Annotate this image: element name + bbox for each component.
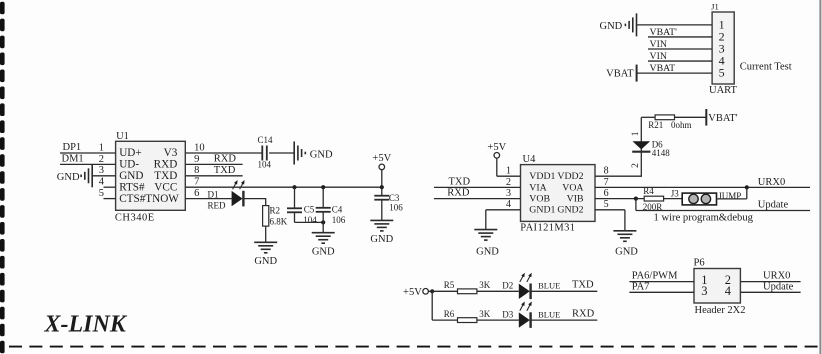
junction node at C3: [380, 185, 384, 189]
header P6 box: [694, 269, 740, 304]
junction node at C4 bottom: [321, 220, 325, 224]
svg-text:8: 8: [194, 165, 199, 176]
junction node LEDs: [430, 289, 434, 293]
capacitor C4: [316, 207, 331, 209]
wire U4 pin8 up: [595, 175, 641, 177]
svg-text:3: 3: [701, 284, 707, 298]
wire GND to U1 pin3: [92, 175, 115, 177]
svg-text:5: 5: [99, 188, 104, 199]
svg-text:GND: GND: [119, 170, 143, 182]
svg-text:1: 1: [631, 131, 641, 136]
svg-text:GND: GND: [57, 172, 80, 183]
sheet right border line: [819, 0, 821, 354]
wire R4 to J3: [664, 198, 683, 200]
wire U1 pin7 VCC rail: [185, 186, 381, 188]
junction node jumper to URX0: [745, 185, 749, 189]
svg-text:VBAT: VBAT: [606, 68, 634, 79]
svg-text:X-LINK: X-LINK: [44, 312, 128, 338]
svg-text:2: 2: [631, 163, 641, 168]
sheet bottom dashed border: [9, 346, 822, 348]
svg-text:5: 5: [719, 66, 725, 80]
svg-text:GND1: GND1: [529, 205, 555, 216]
svg-text:BLUE: BLUE: [538, 281, 560, 291]
svg-text:D1: D1: [208, 190, 219, 200]
svg-text:+5V: +5V: [487, 142, 506, 153]
wire TXD to U4 pin2: [434, 186, 521, 188]
LED D1 arrows: [233, 182, 237, 189]
svg-text:7: 7: [604, 177, 609, 188]
wire J3 to URX0: [717, 198, 747, 200]
ground (sideways) at U1 pin3: [91, 164, 93, 187]
svg-text:7: 7: [194, 177, 199, 188]
IC U1 box: [116, 141, 186, 210]
svg-text:TXD: TXD: [214, 165, 236, 176]
svg-text:CH340E: CH340E: [115, 212, 155, 223]
sheet left dashed border: [0, 2, 5, 354]
svg-text:4: 4: [725, 284, 732, 298]
svg-text:U1: U1: [116, 131, 129, 142]
svg-text:GND2: GND2: [557, 205, 583, 216]
ground below R2: [254, 241, 277, 243]
diode D6: [633, 141, 651, 149]
svg-text:VBAT': VBAT': [650, 27, 678, 38]
wire C5 bottom: [294, 212, 296, 222]
svg-text:CTS#TNOW: CTS#TNOW: [119, 193, 179, 205]
wire C5 top: [294, 187, 296, 208]
LED D2 arrows: [520, 275, 524, 282]
svg-text:GND: GND: [310, 149, 333, 160]
port terminal bar VBAT: [636, 65, 638, 82]
wire J1 pin2 (VBAT'): [648, 36, 712, 38]
svg-text:GND: GND: [600, 21, 623, 32]
svg-text:4148: 4148: [652, 148, 671, 158]
svg-text:1 wire program&debug: 1 wire program&debug: [654, 213, 754, 224]
wire DM1 to U1 pin2: [60, 163, 116, 165]
svg-text:GND: GND: [476, 247, 499, 258]
resistor R6: [458, 318, 477, 323]
svg-text:VOA: VOA: [562, 182, 583, 193]
svg-text:104: 104: [303, 215, 317, 225]
svg-text:RXD: RXD: [447, 188, 470, 199]
wire J1 pin5 (VBAT): [637, 72, 713, 74]
svg-text:3: 3: [99, 165, 104, 176]
wire U4 pin7 URX0 line: [595, 186, 810, 188]
port terminal bar VBAT': [705, 109, 707, 126]
svg-text:V3: V3: [164, 147, 178, 159]
wire R6 to D3: [477, 319, 519, 321]
svg-text:R6: R6: [444, 309, 455, 319]
svg-text:+5V: +5V: [372, 153, 391, 164]
wire J1 pin3 (VIN): [648, 48, 712, 50]
wire RXD to U4 pin3: [434, 198, 521, 200]
wire stub U1 pin5: [104, 198, 116, 200]
svg-text:D2: D2: [502, 281, 513, 291]
wire +5V down to R6 row: [431, 291, 433, 320]
svg-text:DM1: DM1: [62, 154, 84, 165]
capacitor C5: [287, 207, 302, 209]
svg-text:8: 8: [604, 166, 609, 177]
IC U4 box: [521, 165, 596, 222]
svg-text:J1: J1: [711, 1, 719, 11]
wire U4 pin6: [595, 198, 645, 200]
wire C4 top: [322, 187, 324, 208]
svg-text:PAI121M31: PAI121M31: [520, 223, 575, 234]
svg-text:1: 1: [99, 142, 104, 153]
svg-text:2: 2: [506, 177, 511, 188]
svg-text:VDD2: VDD2: [557, 171, 583, 182]
svg-text:VBAT: VBAT: [650, 63, 676, 74]
capacitor C14: [261, 146, 263, 161]
+5V terminal circle (LEDs): [423, 289, 429, 295]
wire U1 pin9 RXD: [185, 163, 242, 165]
wire U1 pin8 TXD: [185, 175, 242, 177]
svg-text:1: 1: [506, 166, 511, 177]
wire C4 bottom to ground: [322, 212, 324, 233]
LED D2: [519, 284, 530, 299]
svg-text:VIA: VIA: [529, 182, 546, 193]
svg-text:6.8K: 6.8K: [270, 216, 288, 226]
wire R21 to VBAT': [675, 116, 707, 118]
wire R5 to D2: [477, 290, 519, 292]
ground below C3: [370, 219, 393, 221]
svg-text:URX0: URX0: [758, 177, 785, 188]
svg-text:UART: UART: [709, 85, 738, 96]
wire pin6 junction down to Update: [635, 199, 637, 211]
wire PA6/PWM to P6 pin1: [629, 281, 694, 283]
ground below C4/C5: [312, 232, 335, 234]
svg-text:URX0: URX0: [763, 270, 790, 281]
svg-text:106: 106: [332, 215, 346, 225]
svg-text:3K: 3K: [479, 309, 491, 319]
wire D3 to RXD: [531, 319, 598, 321]
svg-text:6: 6: [194, 188, 199, 199]
svg-text:R21: R21: [648, 120, 663, 130]
svg-text:Update: Update: [763, 282, 794, 293]
wire +5V to R5: [428, 290, 457, 292]
resistor R5: [458, 289, 477, 294]
svg-text:VIN: VIN: [650, 39, 667, 50]
capacitor C3: [374, 195, 389, 197]
svg-text:VOB: VOB: [529, 194, 550, 205]
svg-text:RXD: RXD: [214, 153, 237, 164]
svg-text:2: 2: [99, 154, 104, 165]
jumper J3: [682, 193, 716, 205]
wire P6 pin4 to Update: [740, 291, 800, 293]
ground below U4 pin4: [474, 229, 497, 231]
resistor R4: [644, 196, 663, 201]
svg-text:C4: C4: [332, 205, 343, 215]
wire U4 pin5 to ground: [595, 209, 625, 211]
svg-text:R2: R2: [270, 206, 281, 216]
svg-text:VCC: VCC: [154, 181, 177, 193]
wire R2 to ground: [265, 226, 267, 242]
svg-text:RXD: RXD: [154, 159, 178, 171]
+5V terminal at U4 pin1: [494, 153, 500, 159]
wire J1 pin4 (VIN): [648, 60, 712, 62]
svg-text:3: 3: [506, 188, 511, 199]
svg-text:UD+: UD+: [119, 147, 141, 159]
svg-text:GND: GND: [254, 256, 277, 267]
svg-text:0ohm: 0ohm: [671, 120, 692, 130]
svg-text:4: 4: [99, 177, 105, 188]
svg-text:C5: C5: [304, 205, 315, 215]
wire U4 pin4 to ground: [486, 209, 521, 211]
wire C3 bottom to ground: [381, 200, 383, 221]
LED D3 arrows: [520, 303, 524, 310]
wire J1 pin1 to GND: [637, 24, 713, 26]
wire stub U1 pin4: [104, 186, 116, 188]
ground (sideways) at J1 pin1: [636, 13, 638, 36]
svg-text:106: 106: [389, 203, 403, 213]
svg-text:R4: R4: [643, 186, 654, 196]
wire D2 to TXD: [531, 290, 598, 292]
+5V terminal circle: [379, 164, 385, 170]
svg-text:5: 5: [604, 199, 609, 210]
wire P6 pin2 to URX0: [740, 281, 800, 283]
svg-text:C14: C14: [258, 135, 274, 145]
wire PA7 to P6 pin3: [629, 291, 694, 293]
svg-text:VBAT': VBAT': [708, 113, 737, 124]
svg-text:J3: J3: [671, 189, 680, 199]
wire C3 top: [381, 187, 383, 196]
svg-text:UD-: UD-: [119, 159, 139, 171]
ground below U4 pin5: [613, 230, 636, 232]
svg-text:Update: Update: [758, 200, 789, 211]
svg-text:GND: GND: [615, 247, 638, 258]
svg-text:VIB: VIB: [567, 194, 584, 205]
junction node C4 top: [321, 185, 325, 189]
svg-text:RXD: RXD: [572, 308, 595, 319]
svg-text:RED: RED: [208, 201, 227, 211]
svg-text:R5: R5: [444, 280, 455, 290]
ground (sideways) at C14: [293, 142, 295, 165]
svg-text:4: 4: [506, 199, 511, 210]
svg-text:VDD1: VDD1: [529, 171, 555, 182]
svg-text:6: 6: [604, 188, 609, 199]
svg-text:10: 10: [194, 142, 205, 153]
svg-text:GND: GND: [370, 234, 393, 245]
svg-text:TXD: TXD: [572, 280, 594, 291]
svg-text:VIN: VIN: [650, 51, 667, 62]
svg-text:PA7: PA7: [632, 282, 650, 293]
junction node at C5: [292, 185, 296, 189]
resistor R21: [655, 115, 674, 120]
svg-text:9: 9: [194, 154, 199, 165]
wire U1 pin6 to D1: [185, 198, 231, 200]
svg-text:BLUE: BLUE: [538, 309, 560, 319]
svg-text:DP1: DP1: [63, 142, 82, 153]
svg-text:3K: 3K: [479, 280, 491, 290]
svg-text:PA6/PWM: PA6/PWM: [632, 270, 678, 281]
svg-text:TXD: TXD: [449, 176, 471, 187]
wire D1 to R2: [243, 198, 265, 200]
svg-text:P6: P6: [694, 258, 705, 269]
resistor R2: [263, 206, 269, 227]
wire DP1 to U1 pin1: [60, 152, 116, 154]
wire +5V to U4 pin1: [496, 158, 498, 176]
svg-text:TXD: TXD: [154, 170, 177, 182]
junction node at pin6: [634, 197, 638, 201]
LED D1: [232, 191, 243, 206]
wire U1 pin10 to C14: [185, 152, 262, 154]
svg-text:+5V: +5V: [403, 287, 422, 298]
svg-text:U4: U4: [523, 154, 537, 165]
wire C14 to GND: [269, 152, 294, 154]
svg-text:C3: C3: [389, 193, 400, 203]
svg-text:104: 104: [258, 160, 272, 170]
LED D3: [519, 312, 530, 327]
svg-text:Header 2X2: Header 2X2: [695, 305, 746, 316]
svg-text:D3: D3: [502, 309, 513, 319]
svg-text:Current Test: Current Test: [740, 62, 792, 73]
svg-text:GND: GND: [312, 247, 335, 258]
svg-text:RTS#: RTS#: [119, 181, 145, 193]
wire +5V to rail: [381, 170, 383, 188]
wire D6 to R21: [641, 116, 655, 118]
connector J1 box: [712, 12, 734, 84]
